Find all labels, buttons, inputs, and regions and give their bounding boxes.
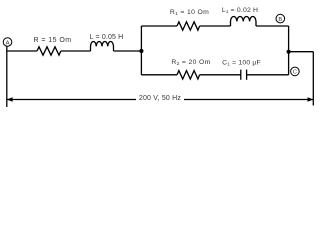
svg-text:200 V, 50 Hz: 200 V, 50 Hz [139,95,182,102]
capacitor C1 [241,70,247,80]
resistor R1 [177,22,200,30]
wire [200,25,231,27]
wire [312,52,314,106]
wire [256,25,289,27]
resistor R2 [177,71,200,79]
resistor R [37,47,61,55]
svg-text:B: B [278,17,282,23]
wire [6,46,8,107]
wire [289,51,314,53]
wire [114,50,142,52]
svg-text:R = 15 Om: R = 15 Om [33,37,71,44]
node junction left [139,49,143,53]
wire [61,50,91,52]
dimension line 200 V, 50 Hz [7,95,314,102]
svg-text:A: A [6,40,10,46]
wire [7,50,37,52]
inductor L [91,42,114,51]
wire [200,74,241,76]
wire [140,26,142,75]
wire [288,26,290,75]
node junction right [287,50,291,54]
wire [141,74,177,76]
inductor L1 [231,16,256,26]
wire [141,25,177,27]
wire [247,74,289,76]
node B [276,14,285,23]
svg-text:C: C [293,70,297,76]
node A [3,38,12,47]
svg-text:L = 0.05 H: L = 0.05 H [90,34,124,41]
node C [291,67,300,76]
